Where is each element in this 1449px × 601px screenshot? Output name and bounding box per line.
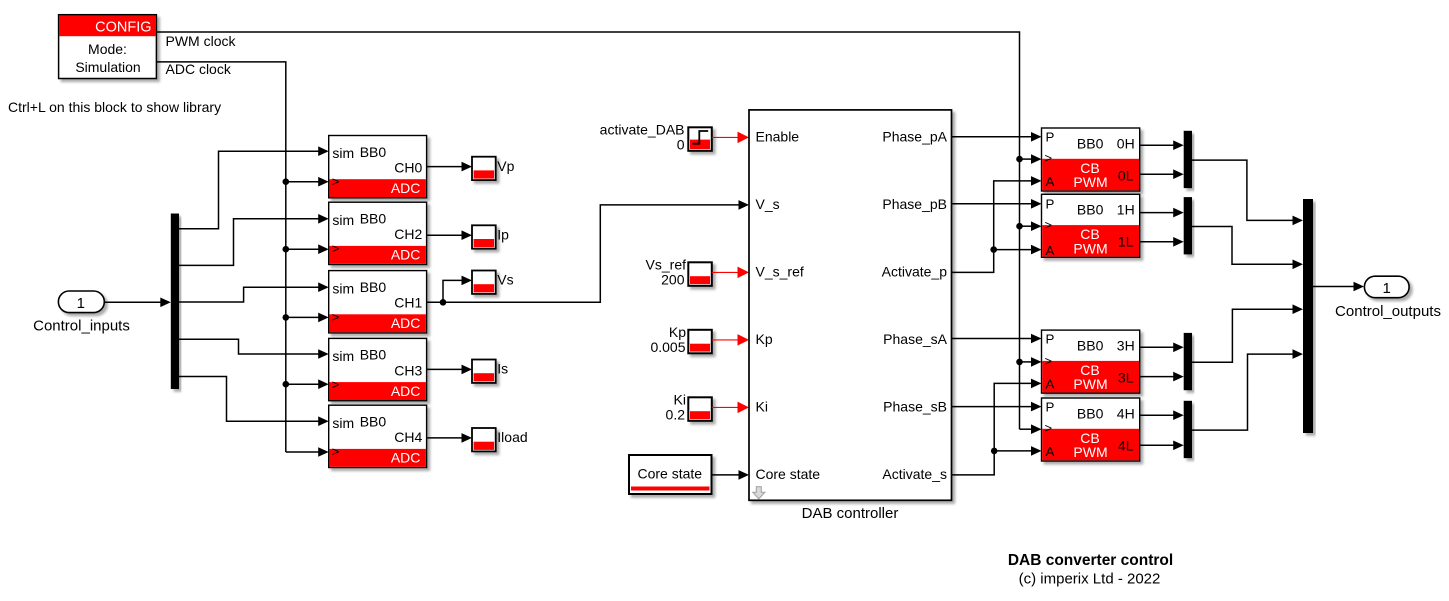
svg-text:sim: sim — [332, 212, 354, 228]
arrowhead into PWM block 1 P input — [1031, 132, 1042, 142]
svg-text:>: > — [332, 174, 340, 189]
svg-text:0.2: 0.2 — [666, 406, 686, 422]
svg-text:>: > — [1045, 151, 1053, 166]
junction on ADC clock line 4 — [283, 381, 290, 388]
PWM block CB PWM 4H/4L — [1042, 398, 1140, 461]
ADC block CH3 (sim BB0 CH3 ADC) — [329, 338, 427, 400]
svg-text:BB0: BB0 — [360, 279, 387, 295]
arrowhead into demux — [160, 298, 171, 308]
svg-text:1H: 1H — [1117, 202, 1135, 218]
arrowhead into PWM block 4 clock input — [1031, 424, 1042, 434]
arrowhead into ADC block 4 sim input — [318, 349, 329, 359]
mux bar 2 (2 inputs) — [1184, 197, 1192, 254]
arrowhead into ADC block 1 sim input — [318, 146, 329, 156]
arrowhead into PWM block 2 P input — [1031, 199, 1042, 209]
output mux bar (4 inputs) — [1303, 199, 1313, 433]
svg-text:P: P — [1046, 331, 1055, 346]
arrowhead into scope Iload — [462, 433, 473, 443]
arrowhead into ADC block 3 sim input — [318, 282, 329, 292]
arrowhead into Control_outputs port — [1354, 282, 1365, 292]
svg-text:Ki: Ki — [756, 399, 768, 415]
svg-text:A: A — [1046, 444, 1055, 459]
wire: PWM 0L output to mux 1 — [1140, 173, 1175, 175]
svg-text:Vs_ref: Vs_ref — [646, 257, 687, 273]
svg-text:>: > — [332, 444, 340, 459]
PWM block CB PWM 3H/3L — [1042, 330, 1140, 393]
wire: ADC clock branch 2 — [286, 248, 320, 250]
arrowhead into DAB Core state input — [739, 470, 750, 480]
svg-text:Control_outputs: Control_outputs — [1335, 303, 1441, 320]
arrowhead 4H into mux 4 — [1173, 410, 1184, 420]
svg-text:>: > — [332, 241, 340, 256]
probe scope Vs — [472, 271, 496, 294]
wire: Phase_sA to PWM block 3 P input — [951, 338, 1033, 340]
ADC block CH1 (sim BB0 CH1 ADC) — [329, 271, 427, 333]
wire: ADC clock branch 1 — [286, 181, 320, 183]
wire: mux 2 output to output mux — [1192, 226, 1294, 264]
arrowhead 3L into mux 3 — [1173, 372, 1184, 382]
svg-text:Iload: Iload — [497, 429, 527, 445]
wire: Activate_s net up to PWM3 A input — [951, 383, 1033, 475]
svg-text:V_s_ref: V_s_ref — [756, 264, 804, 280]
CONFIG block (imperix configuration, Mode: Simulation) — [59, 15, 157, 79]
probe scope Vp — [472, 157, 496, 180]
svg-text:PWM: PWM — [1073, 240, 1107, 256]
svg-text:ADC: ADC — [391, 383, 421, 399]
wire (red): Ki to DAB Ki input — [712, 406, 740, 408]
svg-text:CH3: CH3 — [394, 362, 422, 378]
wire: PWM clock net from CONFIG — [156, 32, 1019, 429]
svg-text:ADC: ADC — [391, 180, 421, 196]
svg-text:sim: sim — [332, 280, 354, 296]
svg-text:Kp: Kp — [756, 331, 773, 347]
mux bar 1 (2 inputs) — [1184, 131, 1192, 188]
wire: ADC CH3 output to scope Is — [427, 368, 463, 370]
arrowhead into PWM block 1 clock input — [1031, 154, 1042, 164]
svg-text:CONFIG: CONFIG — [95, 19, 151, 35]
junction on Activate_s net — [991, 448, 998, 455]
gray variant badge arrow — [753, 487, 765, 499]
constant Ki = 0.2 — [688, 397, 712, 421]
wire: Phase_pB to PWM block 2 P input — [951, 203, 1033, 205]
svg-text:ADC clock: ADC clock — [166, 61, 232, 77]
svg-text:BB0: BB0 — [360, 211, 387, 227]
svg-text:>: > — [1045, 353, 1053, 368]
arrowhead 1L into mux 2 — [1173, 237, 1184, 247]
svg-text:0H: 0H — [1117, 135, 1135, 151]
arrowhead into PWM1 A input — [1031, 176, 1042, 186]
svg-text:1: 1 — [77, 295, 85, 312]
wire: ADC clock net from CONFIG — [156, 62, 285, 452]
svg-text:Control_inputs: Control_inputs — [33, 318, 130, 335]
wire: PWM 3L output to mux 3 — [1140, 376, 1175, 378]
svg-text:PWM clock: PWM clock — [166, 33, 237, 49]
svg-text:Ki: Ki — [674, 392, 686, 408]
svg-text:0L: 0L — [1118, 167, 1134, 183]
arrowhead into PWM block 2 clock input — [1031, 221, 1042, 231]
svg-text:Kp: Kp — [669, 324, 686, 340]
junction on PWM clock line 3 — [1016, 359, 1023, 366]
svg-text:>: > — [332, 309, 340, 324]
svg-text:ADC: ADC — [391, 247, 421, 263]
svg-text:0.005: 0.005 — [650, 339, 685, 355]
wire (red): Vs_ref to V_s_ref — [712, 271, 740, 273]
svg-text:Core state: Core state — [638, 466, 703, 482]
arrowhead into PWM2 A input — [1031, 245, 1042, 255]
svg-text:1: 1 — [1383, 280, 1391, 297]
svg-text:CH4: CH4 — [394, 429, 422, 445]
wire: Phase_sB to PWM block 4 P input — [951, 406, 1033, 408]
svg-text:sim: sim — [332, 348, 354, 364]
PWM block CB PWM 1H/1L — [1042, 194, 1140, 258]
PWM block CB PWM 0H/0L — [1042, 128, 1140, 191]
svg-text:A: A — [1046, 174, 1055, 189]
probe scope Is — [472, 360, 496, 383]
svg-text:BB0: BB0 — [1077, 337, 1104, 353]
svg-text:BB0: BB0 — [360, 414, 387, 430]
wire: Control_inputs to demux — [104, 301, 162, 303]
svg-text:Is: Is — [497, 361, 508, 377]
arrowhead into scope Vp — [462, 162, 473, 172]
svg-text:CH2: CH2 — [394, 226, 422, 242]
svg-text:3H: 3H — [1117, 337, 1135, 353]
arrowhead into ADC block 1 clock input — [318, 177, 329, 187]
svg-text:>: > — [332, 377, 340, 392]
arrowhead into DAB V_s input — [739, 200, 750, 210]
ADC block CH2 (sim BB0 CH2 ADC) — [329, 202, 427, 264]
svg-text:(c) imperix Ltd - 2022: (c) imperix Ltd - 2022 — [1019, 571, 1161, 588]
wire: output mux to Control_outputs — [1313, 286, 1355, 288]
subsystem DAB controller — [749, 110, 952, 500]
svg-text:BB0: BB0 — [360, 144, 387, 160]
wire: PWM 1H output to mux 2 — [1140, 212, 1175, 214]
svg-text:Activate_s: Activate_s — [882, 466, 947, 482]
svg-text:Core state: Core state — [756, 466, 821, 482]
svg-text:>: > — [1045, 218, 1053, 233]
junction on ADC clock line 1 — [283, 178, 290, 185]
red arrowhead into Ki — [738, 402, 750, 414]
constant Vs_ref = 200 — [688, 262, 712, 286]
ADC block CH0 (sim BB0 CH0 ADC) — [329, 136, 427, 198]
wire: branch up to scope Vs — [443, 280, 463, 302]
svg-text:Simulation: Simulation — [75, 59, 140, 75]
step icon inside activate_DAB — [693, 131, 709, 144]
svg-text:Mode:: Mode: — [88, 41, 127, 57]
mux bar 4 (2 inputs) — [1184, 401, 1192, 458]
arrowhead 3H into mux 3 — [1173, 343, 1184, 353]
svg-text:sim: sim — [332, 145, 354, 161]
svg-text:activate_DAB: activate_DAB — [600, 122, 685, 138]
mux bar 3 (2 inputs) — [1184, 333, 1192, 390]
svg-text:Vp: Vp — [497, 158, 514, 174]
wire: mux 1 output to output mux — [1192, 160, 1294, 220]
svg-text:DAB controller: DAB controller — [802, 505, 899, 522]
wire: PWM 4H output to mux 4 — [1140, 414, 1175, 416]
svg-text:ADC: ADC — [391, 315, 421, 331]
arrowhead into scope Ip — [462, 230, 473, 240]
svg-text:BB0: BB0 — [1077, 202, 1104, 218]
wire: Activate_p branch to PWM2 A input — [994, 249, 1033, 251]
arrowhead 4L into mux 4 — [1173, 441, 1184, 451]
data store read block: Core state — [629, 455, 712, 494]
svg-text:Activate_p: Activate_p — [882, 264, 948, 280]
wire: ADC CH2 output to scope Ip — [427, 234, 463, 236]
svg-text:Phase_sA: Phase_sA — [883, 331, 947, 347]
svg-text:A: A — [1046, 377, 1055, 392]
arrowhead 0L into mux 1 — [1173, 169, 1184, 179]
arrowhead mux 4 into output mux — [1293, 349, 1304, 359]
arrowhead mux 1 into output mux — [1293, 216, 1304, 226]
svg-text:0: 0 — [677, 136, 685, 152]
wire: ADC clock branch 4 — [286, 383, 320, 385]
red arrowhead into Enable — [738, 132, 750, 144]
svg-text:CH0: CH0 — [394, 160, 422, 176]
arrowhead into ADC block 5 sim input — [318, 416, 329, 426]
svg-text:P: P — [1046, 130, 1055, 145]
wire: Phase_pA to PWM block 1 P input — [951, 136, 1033, 138]
junction on PWM clock line 1 — [1016, 156, 1023, 163]
arrowhead into ADC block 3 clock input — [318, 313, 329, 323]
wire: ADC clock branch 3 — [286, 316, 320, 318]
arrowhead into PWM block 3 P input — [1031, 334, 1042, 344]
svg-text:>: > — [1045, 421, 1053, 436]
svg-text:200: 200 — [661, 271, 685, 287]
wire: mux 3 output to output mux — [1192, 309, 1294, 362]
wire: CH1 output to DAB V_s input — [427, 205, 740, 302]
arrowhead 0H into mux 1 — [1173, 140, 1184, 150]
wire: ADC CH0 output to scope Vp — [427, 166, 463, 168]
wire: Core state to DAB Core state input — [712, 474, 741, 476]
svg-text:PWM: PWM — [1073, 174, 1107, 190]
svg-text:4H: 4H — [1117, 405, 1135, 421]
wire: PWM clock branch 3 — [1020, 361, 1033, 363]
svg-text:BB0: BB0 — [1077, 405, 1104, 421]
svg-text:P: P — [1046, 197, 1055, 212]
svg-text:BB0: BB0 — [360, 347, 387, 363]
wire: PWM 3H output to mux 3 — [1140, 346, 1175, 348]
wire: PWM clock branch 4 — [1020, 428, 1033, 430]
wire: ADC CH4 output to scope Iload — [427, 437, 463, 439]
wire: PWM clock branch 2 — [1020, 225, 1033, 227]
junction on CH1 output net — [440, 299, 447, 306]
svg-text:A: A — [1046, 243, 1055, 258]
svg-text:PWM: PWM — [1073, 444, 1107, 460]
constant Kp = 0.005 — [688, 330, 712, 354]
wire: PWM 4L output to mux 4 — [1140, 444, 1175, 446]
wire: PWM clock branch 1 — [1020, 158, 1033, 160]
arrowhead 1H into mux 2 — [1173, 208, 1184, 218]
input port 1 Control_inputs — [58, 291, 104, 313]
demux bar (selector, 5 outputs) — [171, 214, 179, 390]
svg-text:BB0: BB0 — [1077, 135, 1104, 151]
ADC block CH4 (sim BB0 CH4 ADC) — [329, 405, 427, 467]
svg-text:DAB converter control: DAB converter control — [1008, 552, 1173, 569]
svg-text:Phase_pB: Phase_pB — [882, 196, 947, 212]
wire: Activate_p net up to PWM1 A input — [951, 181, 1033, 273]
arrowhead mux 2 into output mux — [1293, 260, 1304, 270]
svg-text:sim: sim — [332, 415, 354, 431]
wire (red): Kp to DAB Kp input — [712, 339, 740, 341]
junction on ADC clock line 2 — [283, 246, 290, 253]
wire: demux output 4 to ADC block 4 sim input — [179, 339, 320, 354]
arrowhead into ADC block 4 clock input — [318, 379, 329, 389]
svg-text:4L: 4L — [1118, 437, 1134, 453]
svg-text:ADC: ADC — [391, 450, 421, 466]
arrowhead into ADC block 2 clock input — [318, 244, 329, 254]
svg-text:Ip: Ip — [497, 227, 509, 243]
svg-text:PWM: PWM — [1073, 376, 1107, 392]
probe scope Ip — [472, 225, 496, 248]
svg-text:3L: 3L — [1118, 369, 1134, 385]
svg-text:Phase_sB: Phase_sB — [883, 399, 947, 415]
junction on Activate_p net — [990, 246, 997, 253]
probe scope Iload — [472, 428, 496, 451]
svg-text:Ctrl+L on this block to show l: Ctrl+L on this block to show library — [8, 99, 221, 115]
arrowhead into scope Vs — [462, 276, 473, 286]
step source activate_DAB = 0 — [688, 127, 712, 151]
red arrowhead into Kp — [738, 334, 750, 346]
junction on ADC clock line 3 — [283, 314, 290, 321]
wire: PWM 0H output to mux 1 — [1140, 144, 1175, 146]
wire: demux output 2 to ADC block 2 sim input — [179, 219, 320, 266]
svg-text:Phase_pA: Phase_pA — [882, 129, 947, 145]
output port 1 Control_outputs — [1364, 276, 1409, 298]
wire (red): activate_DAB to Enable — [712, 136, 740, 138]
wire: PWM 1L output to mux 2 — [1140, 241, 1175, 243]
wire: Activate_s branch to PWM4 A input — [994, 450, 1032, 452]
arrowhead into ADC block 5 clock input — [318, 447, 329, 457]
svg-text:V_s: V_s — [756, 196, 780, 212]
svg-text:P: P — [1046, 399, 1055, 414]
arrowhead into PWM3 A input — [1031, 379, 1042, 389]
svg-text:1L: 1L — [1118, 234, 1134, 250]
wire: ADC clock branch 5 — [286, 451, 320, 453]
arrowhead mux 3 into output mux — [1293, 304, 1304, 314]
wire: demux output 3 to ADC block 3 sim input — [179, 287, 320, 302]
arrowhead into PWM block 3 clock input — [1031, 357, 1042, 367]
svg-text:CH1: CH1 — [394, 295, 422, 311]
wire: mux 4 output to output mux — [1192, 354, 1294, 430]
junction on PWM clock line 2 — [1016, 223, 1023, 230]
svg-text:Enable: Enable — [756, 129, 800, 145]
arrowhead into PWM4 A input — [1031, 446, 1042, 456]
wire: demux output 1 to ADC block 1 sim input — [179, 151, 320, 229]
red arrowhead into V_s_ref — [738, 267, 750, 279]
arrowhead into ADC block 2 sim input — [318, 214, 329, 224]
arrowhead into scope Is — [462, 365, 473, 375]
svg-text:Vs: Vs — [497, 272, 513, 288]
arrowhead into PWM block 4 P input — [1031, 402, 1042, 412]
wire: demux output 5 to ADC block 5 sim input — [179, 377, 320, 422]
